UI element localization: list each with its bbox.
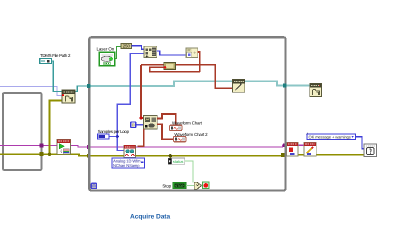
iteration terminal i [91, 183, 98, 190]
olive tunnel on loop right edge [281, 153, 285, 157]
magenta wire between stop and clear [298, 144, 304, 146]
magenta tunnel on left frame [40, 143, 44, 147]
Samples per Loop control [98, 134, 109, 139]
teal tunnel dot left [87, 84, 91, 88]
Waveform Chart 2 indicator [174, 136, 186, 141]
svg-text:status: status [173, 159, 184, 164]
svg-text:Samples per Loop: Samples per Loop [98, 129, 130, 134]
DAQmx Read block [144, 116, 158, 129]
svg-text:NChan NSamp: NChan NSamp [113, 163, 140, 168]
waveform wire read2 up to read [137, 129, 143, 146]
TDMS Open block [62, 90, 75, 103]
Simple Error Handler block [364, 144, 377, 157]
blue riser from samples per loop to timing block [117, 54, 144, 151]
olive branch up to TDMS Open [50, 101, 63, 155]
svg-text:STOP: STOP [175, 184, 184, 188]
blue junction dot [116, 135, 119, 138]
left sequence frame [3, 93, 42, 170]
olive junction dot 2 [169, 154, 172, 157]
Cal VI block [57, 140, 71, 155]
olive branch down to unbundle [169, 156, 171, 159]
teal tunnel dot right [283, 84, 287, 88]
OK message combo box [306, 132, 356, 139]
DAQmx Stop Task block [287, 143, 298, 156]
coercion dot on read input [140, 117, 143, 120]
DAQmx Clear Task block [304, 143, 316, 156]
DAQmx timing block [144, 46, 157, 57]
blue wire 250 to timing block [132, 46, 144, 49]
numeric constant 250 [121, 43, 132, 48]
svg-text:TDMS File Path 2: TDMS File Path 2 [40, 53, 71, 58]
waveform wire read to chart 1 [157, 114, 175, 124]
magenta tunnel on loop right edge [283, 143, 287, 147]
DAQmx start block [164, 63, 176, 70]
TDMS Write block (pencil) [233, 80, 245, 93]
svg-text:250: 250 [123, 44, 131, 49]
Waveform Chart indicator [170, 125, 182, 130]
waveform wire: props block down [198, 52, 200, 72]
Laser On boolean control [99, 52, 114, 66]
waveform wire: main horizontal [141, 65, 233, 88]
status box [172, 158, 185, 164]
olive tunnel on left frame [40, 152, 44, 156]
error cluster wire (olive) [0, 154, 364, 156]
olive junction dot [48, 153, 51, 156]
svg-text:OK message + warnings: OK message + warnings [309, 134, 351, 139]
blue wire timing to props block [157, 51, 186, 55]
blue wire node to read [136, 124, 144, 126]
array-to-cluster node [131, 122, 136, 128]
samples per loop wire [109, 136, 118, 138]
DAQmx Read 2 block [124, 145, 136, 157]
teal wire path control to TDMS Open [51, 61, 62, 92]
waveform wire: riser to read [141, 65, 144, 118]
svg-text:Laser On: Laser On [97, 46, 115, 51]
magenta tunnel dot on loop left edge [87, 145, 91, 149]
magenta task wire [0, 145, 287, 147]
loop condition terminal [203, 182, 209, 188]
or gate [194, 182, 201, 189]
wire or gate to condition terminal [201, 185, 202, 187]
boolean wire status to or gate [185, 161, 193, 182]
lavender wire [0, 87, 62, 96]
TDMS Close block (outside right) [310, 84, 322, 97]
waveform wire: U loop under start block [150, 67, 200, 71]
while loop frame [89, 37, 285, 190]
TDMS properties block [186, 48, 198, 58]
olive tunnel dot on loop left edge [87, 154, 91, 158]
teal wire TDMS Open to tunnel and across loop [75, 86, 89, 92]
blue wire combo to error handler [356, 137, 364, 149]
svg-text:Stop: Stop [162, 183, 171, 188]
polymorphic selector [112, 158, 145, 168]
stop button terminal [173, 182, 186, 188]
unbundle status node [168, 158, 172, 164]
waveform wire read to chart 2 [157, 124, 173, 139]
green wire LaserOn to 250 [115, 46, 121, 58]
TDMS file path control [40, 59, 52, 64]
boolean wire stop to or gate [186, 185, 194, 187]
svg-text:Acquire Data: Acquire Data [130, 214, 170, 221]
